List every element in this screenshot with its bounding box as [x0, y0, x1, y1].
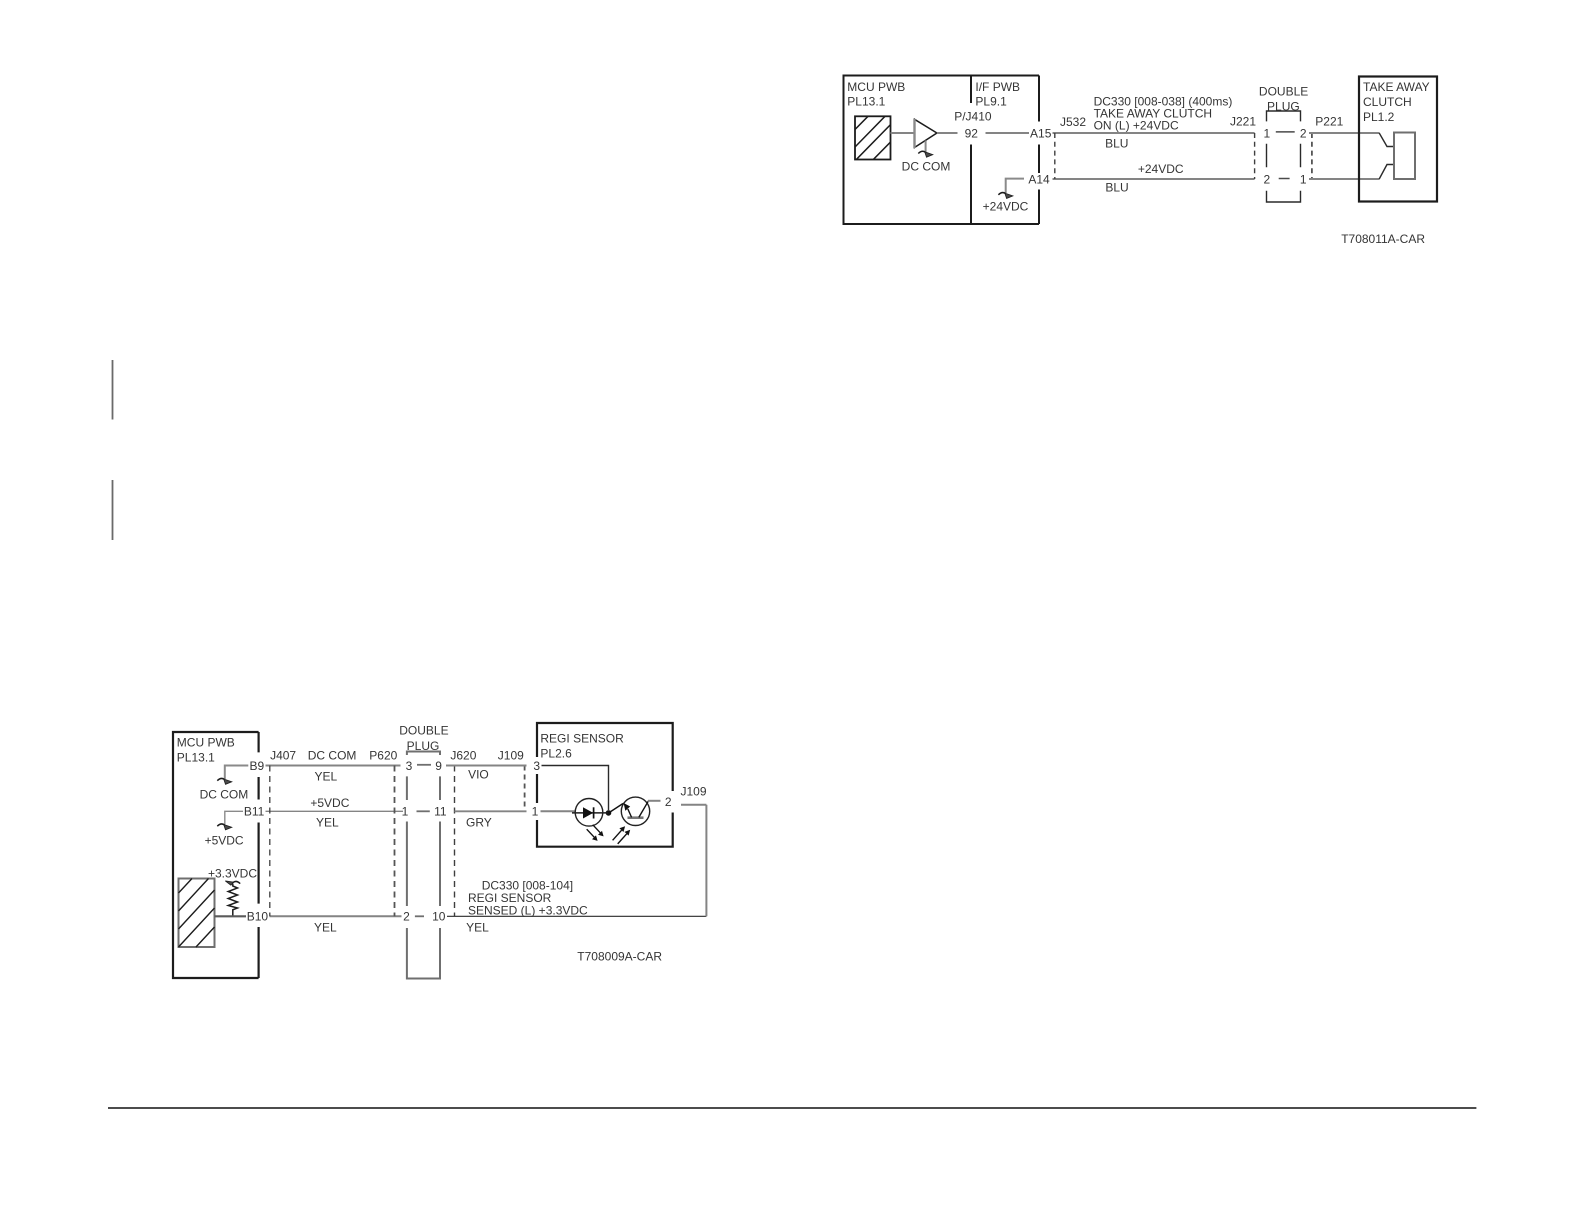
supply arrow symbol +3.3VDC: [233, 881, 240, 883]
svg-text:PL1.2: PL1.2: [1363, 110, 1395, 124]
wire pin 92 to A15: [986, 132, 1030, 134]
svg-text:J221: J221: [1230, 114, 1256, 128]
received light arrow 1: [613, 830, 622, 840]
buffer amplifier symbol: [915, 119, 937, 147]
svg-text:PL13.1: PL13.1: [847, 95, 885, 109]
svg-text:TAKE AWAY: TAKE AWAY: [1363, 80, 1430, 94]
svg-text:P221: P221: [1315, 114, 1343, 128]
connector J221 dashed boundary: [1254, 133, 1256, 179]
svg-text:DC COM: DC COM: [902, 160, 951, 174]
svg-text:J109: J109: [498, 748, 524, 762]
svg-text:P/J410: P/J410: [954, 109, 992, 123]
logic block (hatched) in MCU PWB bottom: [179, 879, 215, 948]
svg-text:J532: J532: [1060, 115, 1086, 129]
divider MCU/I-F lower segment: [970, 145, 972, 225]
wire REGI pin 3 internal: [542, 766, 609, 811]
box I/F PWB right edge segment middle: [1038, 145, 1040, 174]
svg-text:A15: A15: [1030, 126, 1052, 140]
wire buffer to pin 92: [937, 132, 958, 134]
wire REGI pin 1 to LED: [541, 810, 576, 812]
box MCU PWB right edge segments: [258, 732, 260, 978]
box MCU PWB outline (bottom): [173, 732, 259, 978]
box REGI SENSOR outline: [537, 723, 673, 847]
junction dot LED cathode node: [606, 810, 612, 816]
LED internal wire: [572, 812, 609, 814]
resistor R (pull-up): [228, 884, 237, 917]
wire plug to clutch (bottom): [1309, 178, 1379, 180]
box TAKE AWAY CLUTCH: [1359, 77, 1437, 202]
svg-text:DC COM: DC COM: [308, 748, 357, 762]
svg-text:1: 1: [1263, 126, 1270, 140]
connector J109 dashed boundary (left): [524, 766, 526, 812]
double plug box (bottom diagram): [407, 752, 440, 979]
LED emitted light arrow 1: [593, 825, 601, 833]
svg-text:J109: J109: [681, 784, 707, 798]
svg-text:VIO: VIO: [468, 768, 489, 782]
change bar 1: [112, 360, 114, 420]
svg-text:3: 3: [406, 759, 413, 773]
hatch lines of bottom logic block: [179, 879, 215, 948]
connector J407 dashed boundary: [269, 766, 271, 917]
svg-text:2: 2: [1300, 126, 1307, 140]
svg-text:J620: J620: [450, 748, 476, 762]
svg-text:92: 92: [965, 126, 979, 140]
phototransistor emitter lead to junction: [609, 804, 624, 814]
phototransistor emitter arrowhead: [624, 803, 631, 811]
svg-text:3: 3: [533, 759, 540, 773]
wire A14 to J221: [1053, 178, 1255, 180]
svg-text:PL13.1: PL13.1: [177, 750, 215, 764]
svg-text:REGI SENSOR: REGI SENSOR: [540, 731, 624, 745]
wire vertical down to YEL net: [705, 805, 707, 917]
received light arrow 2: [618, 834, 627, 844]
LED D1 circle: [575, 799, 603, 827]
box I/F PWB right edge segment lower: [1038, 190, 1040, 225]
box I/F PWB right edge segment upper: [1038, 76, 1040, 122]
ground stem from buffer: [925, 141, 927, 153]
svg-text:9: 9: [435, 759, 442, 773]
svg-text:10: 10: [432, 910, 446, 924]
wire hatched block to buffer: [891, 132, 916, 134]
svg-text:SENSED (L) +3.3VDC: SENSED (L) +3.3VDC: [468, 904, 588, 918]
ground wire at B9: [225, 766, 249, 780]
plug link dash (bottom row): [1279, 178, 1290, 180]
svg-text:1: 1: [1300, 172, 1307, 186]
ground symbol DC COM (B9): [217, 778, 224, 780]
svg-text:2: 2: [1263, 172, 1270, 186]
phototransistor collector lead: [639, 801, 649, 818]
clutch lead jog (bottom): [1379, 165, 1394, 180]
svg-text:+24VDC: +24VDC: [1138, 162, 1184, 176]
svg-text:B10: B10: [247, 910, 269, 924]
wire collector to REGI pin 2: [648, 800, 661, 802]
svg-text:BLU: BLU: [1105, 181, 1128, 195]
svg-text:YEL: YEL: [316, 816, 339, 830]
connector J532 dashed boundary: [1054, 133, 1056, 179]
svg-text:GRY: GRY: [466, 816, 492, 830]
phototransistor emitter lead to base bar: [628, 809, 632, 818]
svg-text:2: 2: [665, 795, 672, 809]
wire REGI pin 2 out: [681, 804, 706, 806]
svg-text:2: 2: [403, 910, 410, 924]
svg-text:11: 11: [434, 805, 447, 819]
svg-text:ON (L) +24VDC: ON (L) +24VDC: [1094, 119, 1179, 133]
svg-text:MCU PWB: MCU PWB: [847, 80, 905, 94]
wire plug pin 10 long YEL net: [447, 915, 706, 917]
plug link dash (row 2-10): [415, 915, 424, 917]
wire J620 to REGI pin 1 (GRY): [455, 810, 527, 812]
svg-text:+5VDC: +5VDC: [310, 796, 349, 810]
ground symbol +5VDC (B11): [217, 824, 224, 826]
connector P221 dashed boundary: [1311, 133, 1313, 179]
wire B9 to plug pin 3: [266, 765, 401, 767]
wire plug pin 9 to REGI pin 3 (VIO): [446, 765, 527, 767]
phototransistor Q1 circle: [621, 797, 649, 825]
phototransistor base bar: [628, 816, 644, 819]
svg-text:DOUBLE: DOUBLE: [1259, 85, 1308, 99]
clutch coil body: [1394, 133, 1415, 180]
svg-text:+24VDC: +24VDC: [983, 200, 1029, 214]
svg-text:1: 1: [402, 805, 409, 819]
svg-text:MCU PWB: MCU PWB: [177, 736, 235, 750]
LED D1 anode triangle: [583, 807, 593, 818]
hatch lines of logic source block: [855, 116, 891, 159]
clutch lead jog (top): [1379, 133, 1394, 147]
svg-text:CLUTCH: CLUTCH: [1363, 95, 1412, 109]
svg-text:I/F PWB: I/F PWB: [975, 80, 1020, 94]
ground wire to A14: [1006, 179, 1024, 193]
ground symbol +24VDC: [998, 193, 1005, 195]
change bar 2: [112, 480, 114, 540]
svg-text:PL2.6: PL2.6: [540, 747, 572, 761]
ground wire at B11: [225, 811, 243, 824]
buffer left edge (gray): [913, 119, 915, 148]
svg-text:T708009A-CAR: T708009A-CAR: [577, 949, 662, 963]
svg-text:YEL: YEL: [314, 769, 337, 783]
ground symbol DC COM (buffer): [918, 151, 925, 153]
svg-text:B11: B11: [244, 805, 265, 819]
svg-text:YEL: YEL: [314, 921, 337, 935]
svg-text:YEL: YEL: [466, 921, 489, 935]
LED D1 cathode bar: [593, 807, 595, 818]
svg-text:DOUBLE: DOUBLE: [399, 724, 448, 738]
wire A15 to J221: [1053, 132, 1255, 134]
plug link dash (top row): [1276, 131, 1295, 133]
double plug box (top diagram): [1267, 111, 1301, 202]
wire B11 to plug pin 1: [266, 810, 404, 812]
connector J620 dashed boundary: [454, 766, 456, 917]
svg-text:A14: A14: [1028, 172, 1050, 186]
wire hatched block to B10: [215, 915, 247, 917]
LED emitted light arrow 2: [587, 829, 595, 837]
logic source block (hatched) in MCU PWB: [855, 116, 891, 159]
connector P620 dashed boundary: [394, 766, 396, 917]
svg-text:+5VDC: +5VDC: [205, 833, 244, 847]
svg-text:1: 1: [532, 805, 539, 819]
divider MCU/I-F upper segment: [970, 76, 972, 104]
box MCU PWB / I/F PWB outline: [844, 76, 1040, 225]
footer separator line: [108, 1107, 1476, 1109]
wire B10 to plug pin 2: [270, 915, 402, 917]
svg-text:T708011A-CAR: T708011A-CAR: [1341, 232, 1425, 246]
wire plug to clutch (top): [1309, 132, 1379, 134]
svg-text:B9: B9: [250, 759, 265, 773]
svg-text:J407: J407: [270, 748, 296, 762]
svg-text:PL9.1: PL9.1: [975, 95, 1007, 109]
plug link dash (row 1-11): [417, 810, 430, 812]
plug link dash (row 3-9): [417, 764, 431, 766]
svg-text:P620: P620: [369, 748, 397, 762]
svg-text:DC COM: DC COM: [200, 787, 249, 801]
svg-text:BLU: BLU: [1105, 136, 1128, 150]
